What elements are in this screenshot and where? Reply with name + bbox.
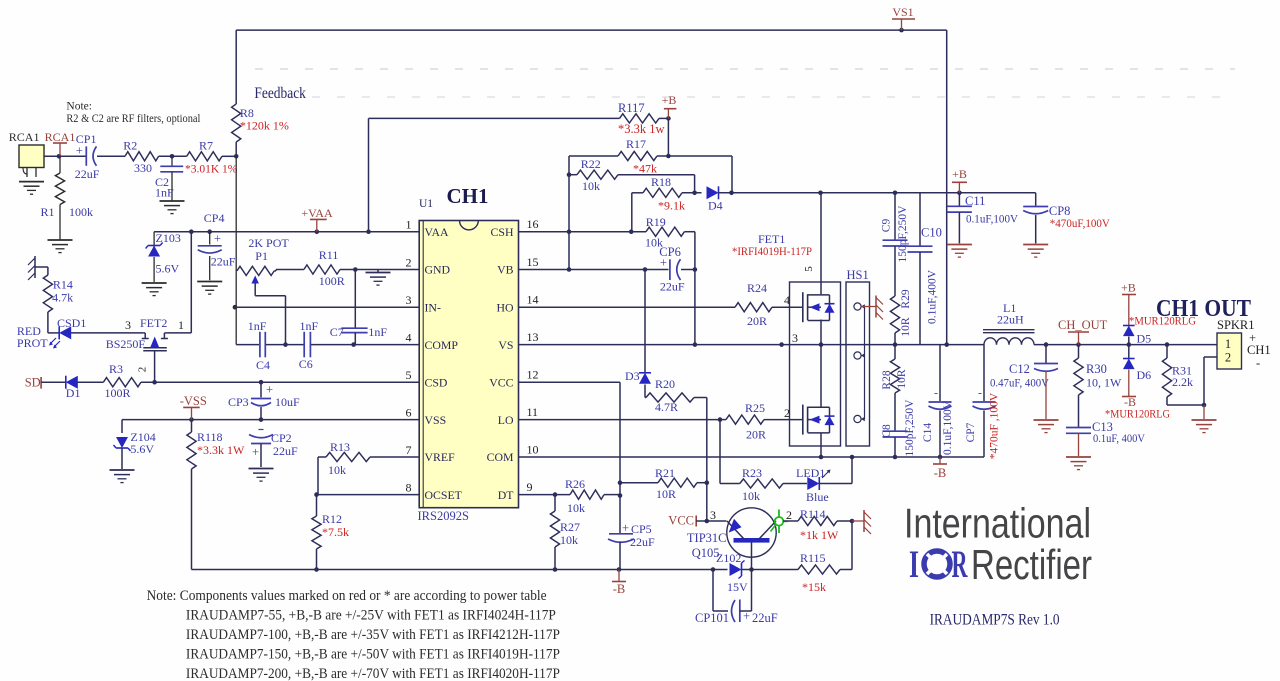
svg-text:4.7k: 4.7k — [52, 291, 73, 305]
svg-text:R13: R13 — [330, 440, 350, 454]
svg-text:-: - — [934, 386, 938, 400]
svg-text:+B: +B — [1121, 281, 1136, 295]
svg-text:3: 3 — [406, 293, 412, 307]
svg-text:VCC: VCC — [668, 514, 694, 528]
svg-text:D6: D6 — [1137, 368, 1152, 382]
svg-text:CH_OUT: CH_OUT — [1058, 318, 1108, 332]
svg-text:5: 5 — [406, 368, 412, 382]
svg-text:TIP31C: TIP31C — [687, 531, 727, 545]
svg-text:2.2k: 2.2k — [1172, 375, 1193, 389]
svg-text:Feedback: Feedback — [254, 85, 306, 102]
svg-text:LED1: LED1 — [796, 466, 825, 480]
svg-text:IRAUDAMP7-200, +B,-B are +/-70: IRAUDAMP7-200, +B,-B are +/-70V with FET… — [186, 666, 560, 681]
svg-text:R22: R22 — [581, 157, 601, 171]
svg-text:4.7R: 4.7R — [655, 400, 678, 414]
svg-text:22uF: 22uF — [660, 280, 685, 294]
svg-text:+: + — [252, 445, 259, 459]
svg-text:10k: 10k — [567, 501, 585, 515]
svg-text:IRAUDAMP7-55, +B,-B are +/-25V: IRAUDAMP7-55, +B,-B are +/-25V with FET1… — [186, 608, 556, 624]
svg-text:+: + — [76, 144, 83, 158]
svg-text:*3.3k 1W: *3.3k 1W — [197, 443, 245, 457]
svg-text:100k: 100k — [69, 205, 93, 219]
svg-text:R27: R27 — [560, 520, 580, 534]
svg-text:100R: 100R — [319, 274, 345, 288]
svg-text:22uF: 22uF — [211, 255, 236, 269]
svg-text:+B: +B — [662, 93, 677, 107]
svg-text:22uF: 22uF — [273, 444, 298, 458]
svg-text:LO: LO — [498, 413, 514, 427]
svg-text:10: 10 — [527, 443, 539, 457]
svg-text:HO: HO — [496, 300, 514, 314]
svg-text:R118: R118 — [197, 430, 223, 444]
svg-text:*1k 1W: *1k 1W — [800, 528, 839, 542]
svg-text:SD: SD — [25, 376, 41, 390]
svg-text:D3: D3 — [625, 369, 640, 383]
svg-text:C4: C4 — [256, 358, 270, 372]
svg-text:FET2: FET2 — [140, 316, 167, 330]
svg-text:D1: D1 — [66, 386, 81, 400]
svg-text:VS: VS — [498, 338, 513, 352]
svg-text:3: 3 — [710, 508, 716, 522]
svg-text:CH1: CH1 — [447, 184, 489, 208]
svg-text:CP2: CP2 — [271, 431, 292, 445]
svg-text:R114: R114 — [800, 507, 826, 521]
svg-text:C11: C11 — [965, 194, 985, 208]
svg-text:RCA1: RCA1 — [45, 130, 76, 144]
svg-text:DT: DT — [498, 488, 515, 502]
svg-text:C8: C8 — [881, 424, 893, 438]
svg-text:15V: 15V — [727, 580, 748, 594]
svg-text:15: 15 — [527, 255, 539, 269]
svg-text:R2: R2 — [123, 139, 137, 153]
svg-text:C9: C9 — [881, 219, 893, 233]
svg-text:C7: C7 — [330, 325, 344, 339]
svg-text:D4: D4 — [708, 199, 723, 213]
svg-text:R24: R24 — [747, 281, 767, 295]
svg-text:R14: R14 — [53, 278, 73, 292]
svg-text:VSS: VSS — [425, 413, 447, 427]
svg-text:*470uF,100V: *470uF,100V — [1050, 216, 1110, 230]
svg-text:CP5: CP5 — [631, 522, 652, 536]
svg-text:7: 7 — [406, 443, 412, 457]
svg-text:GND: GND — [425, 263, 451, 277]
svg-text:CP7: CP7 — [965, 422, 977, 442]
svg-text:1: 1 — [1225, 337, 1231, 351]
svg-text:13: 13 — [527, 330, 539, 344]
svg-text:-B: -B — [613, 582, 626, 596]
svg-text:IRAUDAMP7S Rev 1.0: IRAUDAMP7S Rev 1.0 — [930, 612, 1060, 629]
svg-text:1nF: 1nF — [368, 325, 387, 339]
svg-text:9: 9 — [527, 480, 533, 494]
svg-text:1nF: 1nF — [248, 319, 267, 333]
svg-text:16: 16 — [527, 217, 539, 231]
svg-text:*7.5k: *7.5k — [322, 525, 349, 539]
svg-text:1nF: 1nF — [300, 319, 319, 333]
svg-text:330: 330 — [134, 161, 152, 175]
svg-text:*3.3k 1w: *3.3k 1w — [618, 122, 665, 136]
svg-text:VB: VB — [497, 263, 514, 277]
svg-text:0.1uF,400V: 0.1uF,400V — [927, 269, 939, 324]
svg-text:IRAUDAMP7-100, +B,-B are +/-35: IRAUDAMP7-100, +B,-B are +/-35V with FET… — [186, 627, 560, 643]
svg-text:CP101: CP101 — [695, 611, 729, 625]
svg-text:CP3: CP3 — [228, 395, 249, 409]
svg-text:R12: R12 — [322, 512, 342, 526]
svg-text:I: I — [909, 543, 919, 586]
svg-text:*MUR120RLG: *MUR120RLG — [1105, 407, 1170, 421]
svg-text:R3: R3 — [109, 362, 123, 376]
svg-text:22uH: 22uH — [997, 313, 1024, 327]
svg-text:20R: 20R — [747, 314, 767, 328]
svg-text:R18: R18 — [651, 175, 671, 189]
svg-text:10uF: 10uF — [275, 395, 300, 409]
svg-text:R2 & C2 are RF filters, option: R2 & C2 are RF filters, optional — [66, 113, 200, 125]
svg-text:R26: R26 — [565, 477, 585, 491]
svg-text:+: + — [266, 383, 273, 397]
svg-text:BS250F: BS250F — [106, 337, 146, 351]
svg-text:0.1uF,100V: 0.1uF,100V — [942, 400, 954, 455]
svg-text:RCA1: RCA1 — [9, 130, 40, 144]
svg-text:R115: R115 — [800, 551, 826, 565]
svg-text:R28: R28 — [881, 370, 893, 389]
svg-text:2: 2 — [137, 367, 149, 373]
svg-text:10R: 10R — [656, 487, 676, 501]
svg-text:Z103: Z103 — [156, 231, 181, 245]
svg-text:R29: R29 — [900, 289, 912, 308]
svg-text:3: 3 — [125, 318, 131, 332]
svg-text:+VAA: +VAA — [301, 206, 333, 220]
svg-text:IRAUDAMP7-150, +B,-B are +/-50: IRAUDAMP7-150, +B,-B are +/-50V with FET… — [186, 647, 560, 663]
svg-text:4: 4 — [406, 331, 412, 345]
svg-text:Rectifier: Rectifier — [971, 541, 1092, 588]
svg-text:*47k: *47k — [633, 162, 657, 176]
svg-text:0.47uF, 400V: 0.47uF, 400V — [990, 376, 1049, 390]
svg-text:5: 5 — [803, 266, 815, 272]
svg-text:D5: D5 — [1137, 332, 1152, 346]
svg-text:10R: 10R — [900, 317, 912, 337]
svg-text:10k: 10k — [328, 463, 346, 477]
svg-text:Note: Components values marked: Note: Components values marked on red or… — [147, 588, 547, 604]
svg-text:PROT: PROT — [17, 336, 48, 350]
svg-text:10k: 10k — [560, 533, 578, 547]
svg-text:R23: R23 — [742, 466, 762, 480]
svg-text:R20: R20 — [655, 377, 675, 391]
svg-text:COM: COM — [487, 450, 514, 464]
svg-text:+: + — [214, 232, 221, 246]
svg-text:International: International — [904, 500, 1091, 547]
svg-text:1nF: 1nF — [155, 186, 174, 200]
svg-text:HS1: HS1 — [847, 268, 869, 282]
svg-text:-B: -B — [934, 466, 947, 480]
svg-text:+: + — [660, 256, 667, 270]
svg-text:100R: 100R — [105, 386, 131, 400]
svg-text:10R: 10R — [896, 369, 908, 389]
svg-text:R21: R21 — [655, 466, 675, 480]
svg-text:IRS2092S: IRS2092S — [418, 509, 469, 523]
svg-text:11: 11 — [527, 405, 539, 419]
svg-text:CP4: CP4 — [204, 211, 225, 225]
svg-text:2: 2 — [406, 256, 412, 270]
svg-text:5.6V: 5.6V — [130, 442, 154, 456]
svg-text:+B: +B — [952, 167, 967, 181]
svg-text:2K POT: 2K POT — [248, 236, 289, 250]
svg-text:5.6V: 5.6V — [156, 262, 180, 276]
svg-text:-: - — [1256, 356, 1260, 370]
svg-text:C14: C14 — [922, 423, 934, 442]
svg-text:R19: R19 — [646, 215, 666, 229]
svg-text:10, 1W: 10, 1W — [1086, 376, 1122, 390]
svg-text:C12: C12 — [1009, 362, 1030, 376]
svg-text:VCC: VCC — [489, 375, 513, 389]
svg-text:VAA: VAA — [425, 225, 450, 239]
svg-text:C10: C10 — [921, 226, 942, 240]
svg-text:22uF: 22uF — [630, 535, 655, 549]
svg-text:*15k: *15k — [802, 580, 826, 594]
svg-text:R117: R117 — [618, 101, 645, 115]
svg-text:-: - — [978, 386, 982, 400]
svg-text:2: 2 — [1225, 351, 1231, 365]
svg-text:10k: 10k — [582, 179, 600, 193]
svg-text:1: 1 — [178, 318, 184, 332]
svg-text:1: 1 — [406, 218, 412, 232]
svg-text:CSD1: CSD1 — [57, 316, 86, 330]
svg-text:150pF,250V: 150pF,250V — [897, 205, 909, 263]
svg-text:*9.1k: *9.1k — [658, 199, 685, 213]
svg-text:COMP: COMP — [425, 338, 459, 352]
svg-text:R17: R17 — [626, 137, 646, 151]
svg-text:3: 3 — [792, 331, 798, 345]
svg-text:2: 2 — [786, 508, 792, 522]
svg-text:R: R — [952, 543, 968, 586]
svg-text:*120k 1%: *120k 1% — [240, 119, 289, 133]
svg-text:22uF: 22uF — [75, 167, 100, 181]
svg-text:R7: R7 — [199, 139, 213, 153]
svg-text:Z102: Z102 — [716, 551, 741, 565]
svg-text:CH1: CH1 — [1247, 343, 1271, 357]
svg-text:R1: R1 — [41, 205, 55, 219]
svg-text:C6: C6 — [299, 357, 313, 371]
svg-text:12: 12 — [527, 368, 539, 382]
svg-text:R30: R30 — [1086, 362, 1107, 376]
svg-text:CSH: CSH — [491, 225, 514, 239]
svg-text:0.1uF,100V: 0.1uF,100V — [966, 212, 1018, 226]
svg-text:Note:: Note: — [66, 101, 92, 113]
svg-text:8: 8 — [406, 481, 412, 495]
svg-text:20R: 20R — [746, 428, 766, 442]
svg-text:OCSET: OCSET — [425, 488, 463, 502]
svg-text:150pF,250V: 150pF,250V — [904, 399, 916, 457]
svg-text:-VSS: -VSS — [180, 394, 207, 408]
svg-text:+: + — [622, 521, 629, 535]
svg-text:10k: 10k — [742, 489, 760, 503]
svg-text:VS1: VS1 — [892, 5, 913, 19]
svg-text:*IRFI4019H-117P: *IRFI4019H-117P — [732, 244, 812, 258]
svg-text:0.1uF, 400V: 0.1uF, 400V — [1093, 431, 1145, 445]
svg-text:*470uF ,100V: *470uF ,100V — [989, 392, 1001, 459]
svg-text:*3.01K 1%: *3.01K 1% — [185, 164, 238, 176]
svg-text:R11: R11 — [319, 248, 339, 262]
svg-text:P1: P1 — [255, 249, 268, 263]
svg-text:14: 14 — [527, 293, 539, 307]
svg-text:22uF: 22uF — [752, 611, 778, 625]
svg-text:R25: R25 — [745, 401, 765, 415]
svg-text:IN-: IN- — [425, 300, 441, 314]
svg-text:+: + — [743, 609, 750, 623]
svg-text:U1: U1 — [419, 198, 433, 210]
svg-text:Blue: Blue — [806, 490, 829, 504]
svg-text:VREF: VREF — [425, 450, 456, 464]
svg-text:CSD: CSD — [425, 375, 448, 389]
svg-text:CH1 OUT: CH1 OUT — [1156, 296, 1251, 322]
svg-text:6: 6 — [406, 406, 412, 420]
